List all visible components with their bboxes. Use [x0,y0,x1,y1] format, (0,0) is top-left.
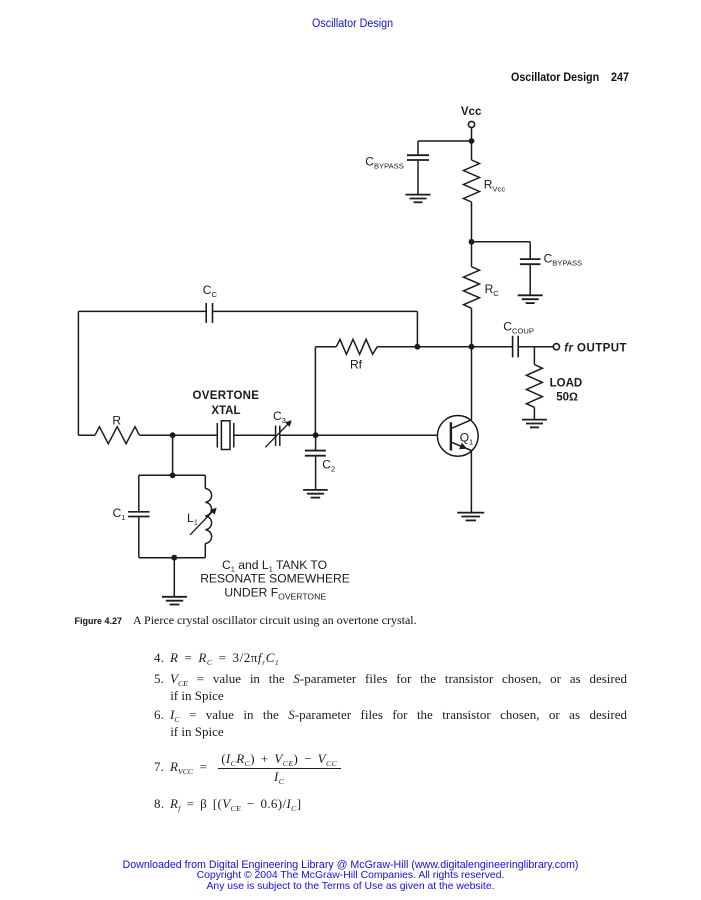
wire riser from D to Cc line [416,311,418,346]
svg-text:L1: L1 [187,511,198,527]
wire load to ground [533,407,535,419]
wire R to node E and xtal [139,434,216,436]
wire tank right upper [204,475,206,488]
resistor LOAD 50ohm [526,365,542,408]
wire tank to ground [173,558,175,597]
equation item 6 [154,707,627,723]
svg-text:C2: C2 [322,458,335,474]
node junction A [469,138,475,144]
node junction H (tank bottom) [171,555,177,561]
ground (under LOAD) [522,420,547,428]
wire Cbypass2 bottom lead [529,265,531,295]
svg-text:R: R [112,413,121,427]
svg-text:RESONATE SOMEWHERE: RESONATE SOMEWHERE [200,572,350,586]
capacitor C_BYPASS (left) [407,155,429,160]
figure caption [75,613,417,628]
ground (emitter) [457,513,484,521]
svg-text:50Ω: 50Ω [556,392,578,404]
wire Rc to node C [471,308,473,346]
wire B to Cbypass2 [472,241,531,243]
wire tank riser [172,435,174,475]
svg-text:RVcc: RVcc [484,178,506,194]
capacitor C_C [206,303,212,323]
wire Cbypass1 bottom lead [417,161,419,195]
svg-text:CC: CC [203,283,218,299]
page header: chapter title and folio [511,70,629,84]
wire B to Rc [471,242,473,267]
wire tank left lower [138,517,140,558]
equation item 8 [154,796,301,812]
capacitor C_BYPASS (right) [520,259,541,264]
wire Cbypass1 top lead [417,141,419,155]
transistor Q1 [437,416,478,457]
equation item 7 [154,759,207,775]
ground (under C2) [303,490,328,498]
wire emitter vertical [470,451,472,513]
capacitor C3 (variable) [265,420,291,447]
resistor R_Vcc [464,160,480,202]
svg-text:CBYPASS: CBYPASS [365,155,404,171]
wire tank top [139,474,206,476]
node junction D [415,344,421,350]
node junction C [469,344,475,350]
svg-text:CCOUP: CCOUP [503,319,534,335]
wire A to Rvcc [471,141,473,160]
node junction G (tank top) [170,472,176,478]
equation item 4 [154,650,279,666]
wire C3 to node F and base [280,434,451,436]
svg-text:fr OUTPUT: fr OUTPUT [564,342,627,354]
svg-text:RC: RC [485,282,500,298]
wire Vcc lead [471,128,473,141]
wire tank left upper [138,475,140,512]
wire tank bottom [139,557,206,559]
resistor R [95,427,139,444]
capacitor C2 [305,451,326,456]
svg-text:XTAL: XTAL [211,405,240,417]
wire to R [78,434,95,436]
node junction B [469,239,475,245]
vcc terminal circle [468,121,474,127]
svg-text:CBYPASS: CBYPASS [544,251,583,267]
output terminal circle [553,344,559,350]
wire Rf left lead [315,346,336,348]
wire Rf right lead [377,346,417,348]
wire Ccoup to output terminal [519,346,553,348]
wire collector vertical [471,347,473,420]
node junction E [170,432,176,438]
crystal OVERTONE XTAL [217,421,234,450]
wire A to Cbypass1 [418,140,472,142]
top running-head link [312,16,393,30]
wire load lead [533,347,535,365]
equation item 5 [154,671,627,687]
wire C2 to ground [315,456,317,490]
wire left vertical [77,311,79,435]
footer notice [0,860,701,892]
svg-text:UNDER FOVERTONE: UNDER FOVERTONE [224,586,326,602]
svg-text:Rf: Rf [350,357,363,371]
inductor L1 [205,489,211,544]
inductor L1 arrow [190,508,217,535]
wire Rf left vertical [314,347,316,435]
wire xtal to C3 [234,434,275,436]
ground (under C_BYPASS right) [518,295,543,303]
resistor Rf [336,339,377,354]
node junction F [313,432,319,438]
wire tank right lower [204,544,206,558]
wire Rvcc to node B [471,202,473,242]
svg-text:OVERTONE: OVERTONE [193,390,260,402]
capacitor C_COUP [513,336,519,358]
svg-text:C3: C3 [273,409,286,425]
wire Cc to riser [213,310,417,312]
wire Cbypass2 top lead [529,242,531,259]
ground (under tank) [162,597,187,605]
svg-text:LOAD: LOAD [550,377,583,389]
svg-text:C1: C1 [113,506,126,522]
capacitor C1 [128,512,149,517]
svg-text:Vcc: Vcc [461,106,482,118]
ground (under C_BYPASS left) [406,195,431,203]
capacitor C2 top lead [315,435,317,450]
wire node D to Ccoup [417,346,512,348]
resistor R_C [464,267,480,309]
wire top left horizontal [78,310,205,312]
